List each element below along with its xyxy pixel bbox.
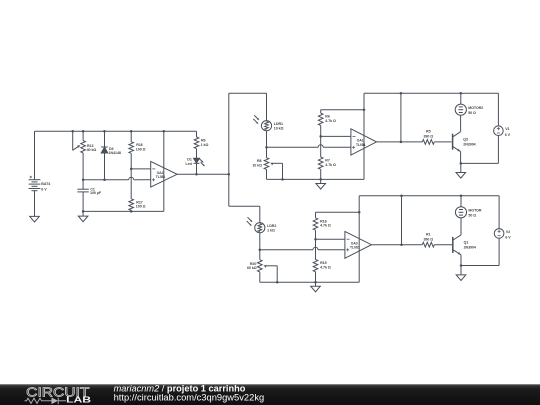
svg-text:6 V: 6 V	[505, 133, 511, 137]
diode D3 1N4148	[101, 131, 121, 180]
svg-text:MOTOR: MOTOR	[468, 209, 482, 213]
wire top rail lower-right	[359, 195, 499, 198]
wire OA1 inverting input	[319, 135, 350, 138]
wire OA1 non-inverting line	[267, 145, 351, 148]
svg-text:1 kΩ: 1 kΩ	[201, 143, 209, 147]
LED D1	[186, 158, 206, 175]
photoresistor LDR2	[247, 217, 277, 233]
svg-text:LAB: LAB	[66, 395, 91, 405]
svg-text:4.7k Ω: 4.7k Ω	[320, 265, 331, 269]
transistor Q1 2N3904	[453, 218, 476, 266]
photoresistor LDR1	[253, 115, 283, 131]
svg-text:V2: V2	[506, 230, 510, 234]
resistor R5	[422, 130, 434, 145]
voltage source V2	[494, 196, 511, 266]
wire R6 top line	[321, 108, 366, 111]
svg-text:MOTOR2: MOTOR2	[468, 106, 483, 110]
svg-text:4.7k Ω: 4.7k Ω	[325, 119, 336, 123]
resistor R6	[318, 110, 336, 137]
svg-text:50 Ω: 50 Ω	[468, 213, 476, 217]
wire riser rail to output	[400, 93, 402, 142]
resistor R16	[129, 131, 146, 169]
wire bottom rail lower section	[260, 281, 359, 284]
resistor R19	[313, 239, 331, 282]
resistor R1	[422, 232, 434, 247]
svg-text:390 Ω: 390 Ω	[423, 237, 433, 241]
svg-text:Q3: Q3	[463, 137, 468, 141]
svg-text:6 V: 6 V	[41, 187, 47, 191]
wire OA3 power pins	[358, 196, 360, 282]
wire OA2 output	[177, 173, 230, 176]
wire top rail left section	[35, 130, 197, 132]
wire OA2 power pins	[163, 131, 165, 211]
svg-text:R1: R1	[426, 232, 431, 236]
svg-text:100 Ω: 100 Ω	[136, 147, 146, 151]
op-amp OA3 TL081	[345, 231, 372, 258]
wire node line (+ input of OA2)	[82, 177, 151, 181]
op-amp OA1 TL081	[351, 129, 377, 155]
svg-text:60 kΩ: 60 kΩ	[247, 266, 257, 270]
ground below C1	[78, 211, 88, 221]
svg-text:BAT4: BAT4	[41, 182, 50, 186]
svg-text:V1: V1	[505, 127, 509, 131]
ground below R19	[311, 282, 321, 292]
wire emitter rail lower-right	[460, 264, 499, 267]
resistor R18	[313, 212, 331, 239]
svg-text:LDR2: LDR2	[267, 224, 276, 228]
wire LDR2 to node	[259, 233, 262, 251]
svg-text:LDR1: LDR1	[274, 122, 283, 126]
potentiometer R8	[252, 147, 282, 179]
footer bar	[0, 384, 540, 405]
svg-text:4.7k Ω: 4.7k Ω	[320, 224, 331, 228]
svg-text:R9: R9	[201, 138, 206, 142]
svg-text:10 kΩ: 10 kΩ	[274, 126, 284, 130]
svg-text:1N4148: 1N4148	[109, 151, 121, 155]
ground below battery	[30, 216, 40, 222]
motor MOTOR2	[455, 93, 483, 115]
motor MOTOR	[455, 196, 482, 218]
voltage source V1	[494, 93, 511, 163]
svg-text:100 µF: 100 µF	[90, 191, 102, 195]
svg-text:6 V: 6 V	[505, 236, 511, 240]
wire OA3 non-inverting line	[260, 247, 345, 249]
potentiometer R13	[73, 131, 97, 180]
wire OA3 inverting input	[314, 238, 345, 241]
CircuitLab logo resistor squiggle	[25, 398, 45, 403]
resistor R7	[318, 136, 336, 179]
wire OA1 power pins	[363, 93, 365, 179]
wire emitter rail upper-right	[460, 162, 499, 165]
transistor Q3 2N3904	[453, 115, 476, 163]
junction dots on left top rail	[71, 130, 165, 133]
wire LDR1 to node	[265, 131, 268, 149]
svg-text:50 Ω: 50 Ω	[468, 111, 476, 115]
svg-text:http://circuitlab.com/c3qn9gw5: http://circuitlab.com/c3qn9gw5v22kg	[114, 393, 265, 403]
svg-text:TL081: TL081	[350, 246, 360, 250]
svg-text:2N3904: 2N3904	[463, 142, 475, 146]
wire hook to LDR1	[229, 93, 267, 120]
wire OA1 output to base	[377, 141, 452, 144]
svg-text:390 Ω: 390 Ω	[423, 135, 433, 139]
wire riser rail to output lower	[401, 196, 403, 245]
ground below Q1 emitter	[456, 266, 466, 281]
svg-text:4.7k Ω: 4.7k Ω	[325, 163, 336, 167]
svg-text:1 kΩ: 1 kΩ	[267, 228, 275, 232]
resistor R17	[129, 169, 146, 212]
wire bottom rail left section	[82, 210, 164, 213]
svg-text:R5: R5	[426, 130, 431, 134]
wire OA3 output to base	[371, 243, 452, 246]
potentiometer R20	[247, 250, 277, 282]
wire top rail upper-right	[364, 92, 498, 95]
svg-text:40 kΩ: 40 kΩ	[87, 148, 97, 152]
svg-text:Q1: Q1	[464, 241, 469, 245]
ground below R7	[316, 179, 326, 189]
svg-text:100 Ω: 100 Ω	[136, 205, 146, 209]
wire bottom rail upper-right	[267, 178, 365, 181]
ground below Q3 emitter	[456, 163, 466, 178]
capacitor C1	[77, 180, 101, 212]
wire R18 top line	[316, 211, 361, 214]
battery BAT4	[29, 131, 51, 216]
op-amp OA2 TL081	[151, 161, 177, 187]
wire hook to LDR2	[229, 206, 260, 222]
wire OA2 output riser	[228, 93, 230, 206]
resistor R9	[194, 131, 208, 158]
svg-text:Led: Led	[186, 162, 192, 166]
CircuitLab logo diode	[45, 398, 66, 405]
wire OA2 inverting input	[130, 168, 151, 171]
svg-text:2N3904: 2N3904	[464, 246, 476, 250]
svg-text:10 kΩ: 10 kΩ	[252, 164, 262, 168]
